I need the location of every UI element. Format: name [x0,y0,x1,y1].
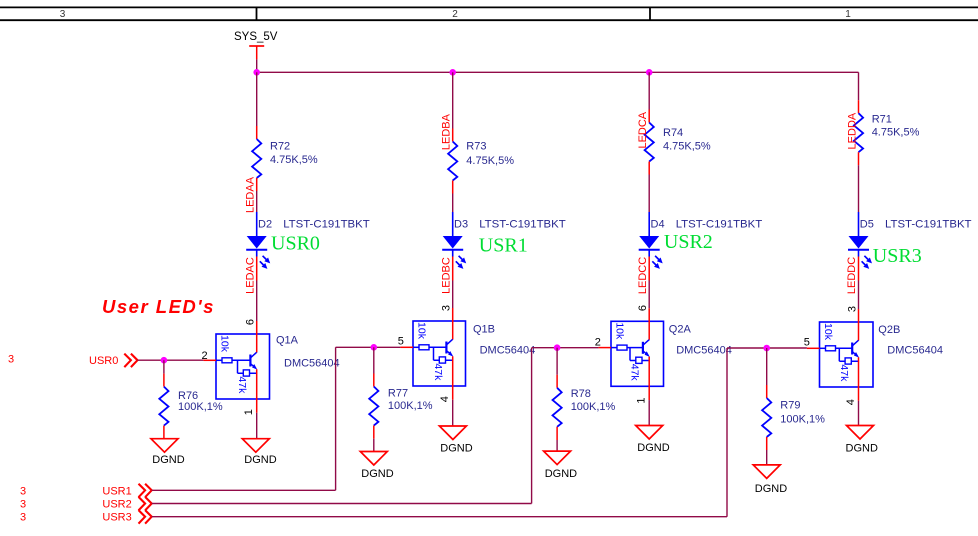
resistor R71 [854,100,920,165]
svg-text:D4: D4 [651,219,665,231]
svg-text:47k: 47k [236,376,248,394]
base pin wire col4 [807,347,820,349]
svg-text:LEDDA: LEDDA [847,112,859,149]
svg-text:DMC56404: DMC56404 [480,344,536,356]
wire USR1 to Q1B base [152,347,336,490]
svg-text:R73: R73 [466,141,486,153]
junction R78 [554,344,561,351]
port USR2 [20,497,152,511]
svg-text:3: 3 [20,499,26,511]
ground DGND (Q2B) [846,426,878,455]
svg-text:4: 4 [845,399,857,405]
svg-text:DGND: DGND [244,454,276,466]
svg-text:DGND: DGND [755,483,787,495]
svg-text:LEDAC: LEDAC [244,257,256,294]
svg-text:3: 3 [20,485,26,497]
svg-text:LEDBA: LEDBA [441,113,453,150]
resistor R76 [159,360,223,439]
LED D5 LTST-C191TBKT [848,212,972,269]
transistor Q2A DMC56404 [611,308,732,400]
wire USR3 to Q2B base [152,348,727,517]
resistor R77 [369,347,433,451]
svg-text:USR1: USR1 [479,234,528,256]
wire col1 LED to transistor [256,257,258,322]
svg-text:DGND: DGND [361,468,393,480]
svg-text:DMC56404: DMC56404 [284,357,340,369]
svg-text:R72: R72 [270,141,290,153]
LED D3 LTST-C191TBKT [442,212,566,269]
svg-text:47k: 47k [838,364,850,382]
wire col3 resistor to LED [648,175,650,213]
resistor R72 [252,126,318,191]
wire col1 bus to resistor [256,72,258,126]
ground DGND (Q2A) [636,426,670,455]
svg-text:LTST-C191TBKT: LTST-C191TBKT [479,219,566,231]
LED D2 LTST-C191TBKT [246,212,370,269]
base pin wire col3 [598,347,611,349]
svg-text:LTST-C191TBKT: LTST-C191TBKT [676,219,763,231]
svg-text:100K,1%: 100K,1% [178,401,223,413]
svg-text:6: 6 [245,319,257,325]
svg-text:LEDCC: LEDCC [637,257,649,294]
svg-text:4.75K,5%: 4.75K,5% [872,127,920,139]
svg-text:47k: 47k [629,364,641,382]
svg-text:DMC56404: DMC56404 [887,345,943,357]
svg-text:SYS_5V: SYS_5V [234,31,278,43]
junction R77 [371,344,378,351]
svg-text:DGND: DGND [637,442,669,454]
transistor Q1A DMC56404 [216,321,340,413]
svg-text:DGND: DGND [152,454,184,466]
base pin wire col1 [203,359,216,361]
ground DGND (R79) [753,465,787,495]
svg-text:LTST-C191TBKT: LTST-C191TBKT [885,219,972,231]
LED D4 LTST-C191TBKT [639,212,763,269]
wire Q2A emitter to ground [648,400,650,425]
svg-text:USR3: USR3 [873,245,922,267]
wire Q1B emitter to ground [452,400,454,426]
wire col2 bus to resistor [452,72,454,128]
svg-text:Q1A: Q1A [276,334,299,346]
wire col3 LED to transistor [648,257,650,309]
junction R79 [763,345,770,352]
svg-text:10k: 10k [219,335,231,353]
svg-text:4: 4 [439,396,451,402]
svg-text:USR1: USR1 [102,485,131,497]
svg-text:R74: R74 [663,127,683,139]
svg-text:USR2: USR2 [664,231,713,253]
port USR1 [20,484,152,498]
svg-text:USR2: USR2 [102,499,131,511]
base pin wire col2 [400,346,413,348]
ground DGND (Q1B) [439,426,472,454]
svg-text:D3: D3 [454,219,468,231]
svg-text:Q2A: Q2A [669,323,692,335]
junction col2 [449,69,456,76]
svg-text:3: 3 [60,9,66,20]
svg-text:4.75K,5%: 4.75K,5% [466,155,514,167]
svg-text:R78: R78 [571,388,591,400]
svg-text:3: 3 [8,354,14,366]
ground DGND (R76) [151,439,185,466]
svg-text:100K,1%: 100K,1% [571,401,616,413]
svg-text:100K,1%: 100K,1% [780,413,825,425]
port USR3 [20,510,152,524]
svg-text:1: 1 [845,9,851,20]
svg-text:USR0: USR0 [271,233,320,255]
wire col1 resistor to LED [256,191,258,212]
wire Q1B base [336,346,401,348]
wire Q2A base [532,347,599,349]
svg-text:10k: 10k [416,322,428,340]
svg-text:D2: D2 [258,219,272,231]
resistor R79 [762,348,825,465]
port USR0 [8,354,138,368]
resistor R73 [448,129,514,194]
wire SYS_5V to bus [256,59,258,72]
svg-text:3: 3 [847,306,859,312]
svg-text:10k: 10k [822,323,834,341]
wire top power bus [257,71,859,73]
wire col2 LED to transistor [452,257,454,309]
svg-text:D5: D5 [860,219,874,231]
svg-text:3: 3 [441,305,453,311]
svg-text:R71: R71 [872,114,892,126]
svg-text:2: 2 [595,337,601,349]
svg-text:R77: R77 [388,388,408,400]
resistor R74 [645,110,711,175]
svg-text:USR0: USR0 [89,355,118,367]
wire Q2B base [727,347,807,349]
svg-text:5: 5 [398,336,404,348]
svg-text:47k: 47k [432,363,444,381]
wire col4 bus to resistor [858,72,860,100]
svg-text:10k: 10k [614,322,626,340]
svg-text:DGND: DGND [846,443,878,455]
svg-text:DGND: DGND [440,442,472,454]
junction col3 [646,69,653,76]
svg-text:100K,1%: 100K,1% [388,400,433,412]
wire Q2B emitter to ground [858,401,860,426]
svg-text:Q1B: Q1B [473,323,495,335]
wire col4 resistor to LED [858,165,860,212]
svg-text:User LED's: User LED's [102,296,215,317]
svg-text:1: 1 [243,409,255,415]
svg-text:DMC56404: DMC56404 [676,344,732,356]
transistor Q1B DMC56404 [413,308,535,400]
svg-text:LEDCA: LEDCA [637,111,649,148]
wire USR0 port to Q1A base [138,359,204,361]
svg-text:R79: R79 [780,400,800,412]
svg-text:6: 6 [637,305,649,311]
svg-text:4.75K,5%: 4.75K,5% [270,154,318,166]
wire col4 LED to transistor [858,257,860,310]
wire USR2 to Q2A base [152,348,532,504]
svg-text:LEDDC: LEDDC [846,257,858,294]
svg-text:DGND: DGND [545,468,577,480]
junction col1 [253,69,260,76]
svg-text:Q2B: Q2B [878,324,900,336]
svg-text:LEDAA: LEDAA [245,176,257,213]
ground DGND (Q1A) [242,439,276,466]
svg-text:USR3: USR3 [102,512,131,524]
transistor Q2B DMC56404 [820,309,943,401]
junction USR0/R76 [161,357,168,364]
ground DGND (R78) [544,451,578,480]
svg-text:LTST-C191TBKT: LTST-C191TBKT [283,219,370,231]
svg-text:3: 3 [20,512,26,524]
wire Q1A emitter to ground [256,413,258,439]
resistor R78 [553,348,616,451]
svg-text:1: 1 [636,398,648,404]
wire col3 bus to resistor [648,72,650,109]
svg-text:LEDBC: LEDBC [440,257,452,294]
ground DGND (R77) [360,452,393,481]
wire col2 resistor to LED [452,194,454,213]
sheet border top strip [0,7,978,20]
svg-text:5: 5 [804,337,810,349]
svg-text:2: 2 [452,9,458,20]
power symbol SYS_5V [234,31,278,60]
svg-text:4.75K,5%: 4.75K,5% [663,141,711,153]
